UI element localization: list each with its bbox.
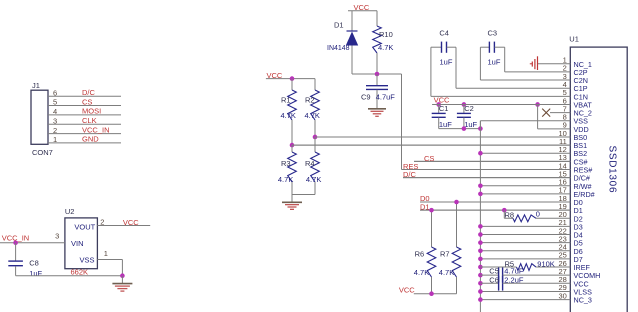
svg-text:3: 3 (55, 232, 59, 241)
wire C3 right to C2P pin 2 (504, 47, 506, 72)
svg-text:2: 2 (53, 126, 57, 135)
node C1 top junction (436, 102, 441, 107)
wire C1 C2 bottoms to VSS bus (439, 128, 481, 130)
U2 pin 3 VIN wire from VCC_IN (0, 242, 65, 244)
svg-text:R7: R7 (440, 249, 450, 258)
U1 pin 18 D0 (420, 201, 570, 203)
U1 pin 7 NC_2 (550, 112, 570, 114)
U1 pin 5 C1N (431, 95, 570, 97)
U1 pin 10 BS0 (315, 136, 570, 138)
svg-text:NC_3: NC_3 (574, 296, 592, 305)
svg-text:6: 6 (53, 88, 57, 97)
svg-text:C3: C3 (488, 29, 498, 38)
svg-text:C2: C2 (464, 104, 474, 113)
U1 pin 17 E/RD# (480, 193, 570, 195)
capacitor C9 4.7uF (376, 74, 378, 85)
svg-text:4.7uF: 4.7uF (376, 92, 396, 101)
wire R3 R4 bottoms (292, 194, 315, 196)
capacitor C1 1uF (438, 104, 440, 112)
capacitor C6 2.2uF (480, 282, 498, 284)
U1 pin 6 VBAT (432, 103, 570, 105)
svg-text:VSS: VSS (80, 256, 95, 265)
node reset junction at R10 C9 (375, 72, 380, 77)
node VCC-R6 junction (429, 291, 434, 296)
svg-text:4.7K: 4.7K (281, 111, 296, 120)
svg-text:C5: C5 (489, 266, 499, 275)
svg-text:4.7K: 4.7K (439, 268, 454, 277)
U1 pin 14 RES# (402, 168, 571, 170)
U1 pin 23 D5 (480, 242, 570, 244)
IC U1 SSD1306 body (570, 47, 627, 312)
node VDD branch junction (535, 102, 540, 107)
wire C8 bottom to U2 VSS ground node (16, 275, 123, 277)
U1 pin 9 VDD (538, 128, 571, 130)
J1 pin 6 wire / net D/C (48, 95, 121, 97)
wire BS0 from R2-R4 to pin 10 (315, 136, 570, 138)
svg-text:R2: R2 (305, 96, 315, 105)
J1 pin 1 wire / net GND (48, 142, 121, 144)
svg-text:D/C: D/C (403, 170, 417, 179)
U2 pin 1 VSS wire (97, 259, 122, 261)
wire VSS ground bus vertical (479, 121, 481, 312)
svg-text:VCC: VCC (399, 285, 415, 294)
svg-text:D1: D1 (334, 21, 344, 30)
wire VDD branch down to pin 9 (537, 104, 539, 128)
wire VCC to D1 and R10 (348, 10, 377, 12)
node D0-R7 junction (454, 200, 459, 205)
svg-text:2: 2 (100, 217, 104, 226)
resistor R1 4.7K (291, 79, 293, 90)
svg-text:4.7K: 4.7K (305, 111, 320, 120)
svg-text:1: 1 (53, 135, 57, 144)
svg-text:910K: 910K (537, 259, 555, 268)
U1 pin 12 BS2 (480, 152, 570, 154)
svg-text:CS: CS (424, 154, 434, 163)
svg-text:R1: R1 (281, 96, 291, 105)
U1 pin 13 CS# (414, 160, 570, 162)
ground symbol below R3 (291, 195, 293, 203)
svg-text:662K: 662K (71, 267, 89, 276)
node VSS bus top junction (478, 126, 483, 131)
svg-text:1uF: 1uF (29, 269, 42, 278)
svg-text:4.7uF: 4.7uF (504, 266, 524, 275)
U1 pin 15 D/C# (403, 177, 570, 179)
ground symbol below C9 (368, 108, 386, 110)
svg-text:D/C: D/C (82, 88, 96, 97)
J1 pin 3 wire / net CLK (48, 123, 121, 125)
svg-text:1uF: 1uF (464, 120, 477, 129)
wire VCC to VBAT pin 6 (432, 103, 570, 105)
svg-text:4.7K: 4.7K (378, 43, 393, 52)
U1 pin 19 D1 (420, 209, 570, 211)
resistor R8 0 ohm (503, 210, 505, 218)
node C2 top junction (462, 102, 467, 107)
capacitor C8 1uF (15, 243, 17, 261)
svg-text:1uF: 1uF (439, 120, 452, 129)
node VCC_IN junction (13, 241, 18, 246)
wire U2 VSS down to ground (121, 260, 123, 276)
svg-text:IN4148: IN4148 (327, 45, 350, 52)
regulator U2 662K (65, 218, 98, 269)
svg-text:2.2uF: 2.2uF (504, 276, 524, 285)
svg-text:R8: R8 (505, 210, 515, 219)
U1 pin 25 D7 (480, 258, 570, 260)
svg-text:C6: C6 (489, 276, 499, 285)
svg-text:MOSI: MOSI (82, 107, 101, 116)
wire reset node down to RES# pin 14 (401, 74, 403, 169)
svg-text:C1: C1 (439, 104, 449, 113)
svg-text:0: 0 (536, 209, 540, 218)
ground symbol below U2 (121, 276, 123, 284)
svg-text:VIN: VIN (71, 239, 84, 248)
J1 pin 4 wire / net MOSI (48, 114, 121, 116)
wire C3 left to C2N pin 3 (479, 47, 481, 80)
svg-text:VCC_IN: VCC_IN (82, 125, 110, 134)
no-ERC marker on pin 1 (530, 63, 533, 65)
resistor R2 4.7K (314, 79, 316, 90)
resistor R10 4.7K (376, 11, 378, 26)
svg-text:VCC: VCC (123, 218, 139, 227)
U1 pin 8 VSS (479, 121, 481, 129)
svg-text:1uF: 1uF (488, 58, 501, 67)
svg-text:CON7: CON7 (32, 148, 53, 157)
wire reset node D1-R10-C9 (352, 73, 402, 75)
capacitor C2 1uF (463, 104, 465, 112)
U1 pin 22 D4 (480, 234, 570, 236)
resistor R3 4.7K (291, 145, 293, 152)
svg-text:CLK: CLK (82, 116, 97, 125)
wire C4 left to C1N pin 5 (430, 47, 432, 96)
svg-text:C4: C4 (439, 29, 449, 38)
U1 pin 24 D6 (480, 250, 570, 252)
U2 pin 2 VOUT wire to VCC (97, 225, 150, 227)
svg-text:R6: R6 (415, 249, 425, 258)
wire VCC to R6 R7 bottoms (414, 293, 457, 295)
svg-text:5: 5 (53, 98, 57, 107)
svg-text:SSD1306: SSD1306 (607, 146, 618, 194)
no-connect X on pin 7 (542, 109, 550, 117)
U1 pin 1 NC_1 (538, 63, 571, 65)
U1 pin 21 D3 (480, 225, 570, 227)
connector J1 CON7 (31, 90, 48, 144)
svg-text:U2: U2 (65, 207, 75, 216)
node D1-R8 junction (502, 208, 507, 213)
svg-text:3: 3 (53, 116, 57, 125)
net CS wire to pin 13 (414, 160, 570, 162)
svg-text:4.7K: 4.7K (306, 175, 321, 184)
wire BS1 from R1-R3 to pin 11 (292, 144, 570, 146)
svg-text:VOUT: VOUT (74, 222, 95, 231)
net D1 wire to pin 19 (420, 209, 570, 211)
U1 pin 2 C2P (505, 71, 571, 73)
svg-text:4.7K: 4.7K (278, 175, 293, 184)
net D/C wire to pin 15 (403, 177, 570, 179)
U1 pin 29 VLSS (480, 290, 570, 292)
J1 pin 5 wire / net CS (48, 105, 121, 107)
U1 pin 3 C2N (480, 79, 570, 81)
svg-text:CS: CS (82, 97, 92, 106)
svg-text:D1: D1 (420, 202, 430, 211)
svg-text:30: 30 (558, 291, 566, 300)
J1 pin 2 wire / net VCC_IN (48, 133, 121, 135)
net RES wire to pin 14 (402, 168, 571, 170)
node C2 bottom junction (462, 126, 467, 131)
node ground junction at U2 (120, 273, 125, 278)
svg-text:U1: U1 (569, 35, 579, 44)
node D1-R6 junction (429, 208, 434, 213)
U1 pin 30 NC_3 (480, 299, 570, 301)
svg-text:C8: C8 (29, 258, 39, 267)
node VCC-R1 junction (290, 76, 295, 81)
resistor R6 4.7K on D1 line (431, 210, 433, 247)
resistor R5 910K (480, 266, 516, 268)
node BS0 junction at R2 R4 (313, 135, 318, 140)
diode D1 IN4148 (351, 11, 353, 31)
svg-text:R4: R4 (305, 159, 315, 168)
svg-text:4.7K: 4.7K (414, 268, 429, 277)
capacitor C5 4.7uF (480, 274, 498, 276)
node BS1 junction at R1 R3 (290, 143, 295, 148)
svg-text:R10: R10 (379, 30, 393, 39)
svg-text:4: 4 (53, 107, 57, 116)
net D0 wire to pin 18 (420, 201, 570, 203)
svg-text:1: 1 (104, 249, 108, 258)
U1 pin 4 C1P (456, 87, 570, 89)
svg-text:C9: C9 (361, 92, 371, 101)
svg-text:J1: J1 (32, 81, 40, 90)
resistor R7 4.7K on D0 line (456, 202, 458, 247)
wire VCC to R1 R2 tops (266, 78, 315, 80)
svg-text:R3: R3 (281, 159, 291, 168)
svg-text:GND: GND (82, 135, 99, 144)
U1 pin 11 BS1 (292, 144, 570, 146)
U1 pin 16 R/W# (480, 185, 570, 187)
wire C4 right to C1P pin 4 (455, 47, 457, 88)
resistor R4 4.7K (314, 137, 316, 152)
svg-text:1uF: 1uF (440, 58, 453, 67)
